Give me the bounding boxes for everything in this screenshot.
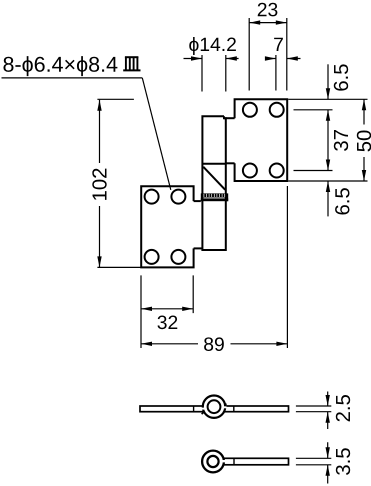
side view B knuckle inner circle [207,456,218,467]
left leaf hole top-left [145,190,159,204]
dimension 32 text [158,316,178,330]
right leaf neck bottom edge [226,162,235,164]
right leaf hole top-left [243,103,257,117]
dimension 6.5 top arrow [327,64,329,99]
dimension 7 arrows (outside) [266,58,301,60]
side view A right bar divider [233,406,235,412]
dimension 37 text [334,130,348,151]
side view A left leaf curl hook [202,412,206,414]
side view A left leaf bar [140,406,207,412]
knuckle divider line [202,163,225,165]
side view B bar divider [233,458,235,465]
left leaf hole bottom-right [171,250,185,264]
dimension 102 extension lines [97,99,141,267]
dimension 3.5 arrows [327,442,329,483]
dimension 2.5 extension lines [296,406,331,412]
dimension 6.5 bottom arrow [327,181,329,216]
dimension 23 line [249,22,287,24]
right leaf hole top-right [270,103,284,117]
side view A bar core notches in ring [202,408,205,410]
spring hatch striped band [201,193,228,201]
side view A knuckle outer circle [203,396,225,418]
dimension 50 text [357,131,371,152]
right side extension lines [288,99,367,181]
left leaf plate outline [141,186,193,267]
right leaf hole bottom-right [270,164,284,178]
dimension 7 text [274,38,283,51]
dimension 89 line [141,343,287,345]
dimension 3.5 extension lines [296,458,331,465]
dimension 6.5 top text [334,64,348,90]
spring hatch solid band [201,198,228,201]
side view A right leaf bar [221,406,289,412]
right leaf neck top edge [224,117,235,119]
dimension phi14.2 text [189,37,236,55]
dimension phi14.2 extension lines [202,55,226,92]
dimension 102 text [92,169,106,200]
dimension 2.5 text [336,395,350,421]
dimension 89 text [204,337,224,351]
side view B bar core notch in ring [222,460,225,462]
left leaf hole top-right [171,190,185,204]
dimension 23 text [258,3,278,17]
dimension 23 extension lines [249,18,287,91]
dimension 50 line [363,99,365,181]
dimension phi14.2 arrows (outside) [184,58,239,60]
label underline [2,77,143,79]
knuckle diagonal [203,167,225,190]
side view B leaf bar [222,458,289,465]
side view A left bar divider [193,406,195,412]
left leaf neck bottom edge [194,247,203,249]
sara (countersunk) glyph [123,57,140,70]
knuckle column outline [202,116,225,250]
dimension 37 line with inside arrows [327,110,329,171]
left leaf hole bottom-left [145,250,159,264]
side view A right leaf curl hook [222,404,226,406]
dimension 89 extension line right [286,186,288,348]
label 8-phi6.4 x phi8.4 countersunk [3,56,117,76]
right leaf hole bottom-left [243,164,257,178]
dimension 102 line [99,100,101,268]
dimension 3.5 text [336,448,350,475]
dimension 32 extension lines [141,275,193,348]
right leaf plate outline [235,99,288,181]
dimension 6.5 bottom text [335,188,349,214]
dimension 2.5 arrows [327,392,329,430]
left leaf neck top edge [194,200,201,202]
side view B knuckle outer circle [202,451,224,473]
dimension 32 line [141,308,193,310]
leader line to hole [142,78,171,190]
dimension 7 extension line [275,55,277,91]
side view A knuckle inner circle [208,400,221,413]
